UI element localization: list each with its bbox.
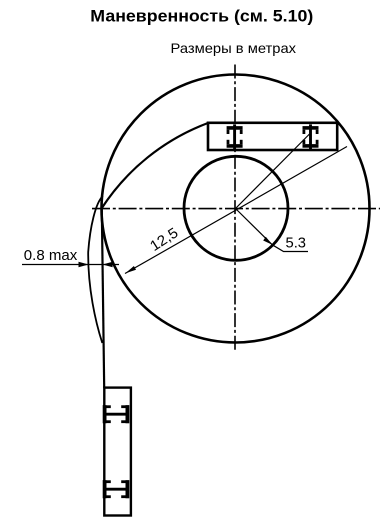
dimension line 12.5	[125, 147, 347, 274]
svg-text:Маневренность (см. 5.10): Маневренность (см. 5.10)	[90, 7, 313, 26]
horizontal center line	[92, 208, 380, 210]
bottom vehicle body rectangle	[104, 388, 131, 516]
bottom lower wheel (H-beam)	[104, 480, 128, 498]
outer turning circle R12.5	[102, 75, 370, 343]
0.8 max left-pointing arrowhead	[103, 262, 113, 268]
dimension line 5.3	[236, 209, 273, 245]
straight exit path line	[102, 209, 104, 388]
arrowhead of 12.5 dimension	[125, 266, 136, 274]
0.8 max right-pointing arrowhead	[79, 262, 89, 268]
radius line L1 to front wheel	[236, 134, 310, 209]
svg-text:Размеры в метрах: Размеры в метрах	[171, 40, 297, 56]
vertical center line	[234, 65, 236, 353]
inner circle R5.3	[184, 156, 288, 260]
top-left wheel (I-beam)	[227, 124, 243, 149]
svg-text:0.8 max: 0.8 max	[24, 247, 78, 264]
0.8 max dimension line	[22, 264, 119, 266]
leader of 5.3	[272, 245, 308, 252]
arrowhead of 5.3 dimension	[263, 237, 272, 245]
svg-text:5.3: 5.3	[286, 235, 307, 252]
top vehicle body rectangle	[208, 123, 337, 150]
top-right wheel (I-beam)	[303, 124, 319, 149]
swing-out bulge curve (0.8 max)	[88, 196, 103, 343]
middle arc (rear corner path)	[102, 123, 209, 209]
bottom upper wheel (H-beam)	[104, 405, 128, 423]
